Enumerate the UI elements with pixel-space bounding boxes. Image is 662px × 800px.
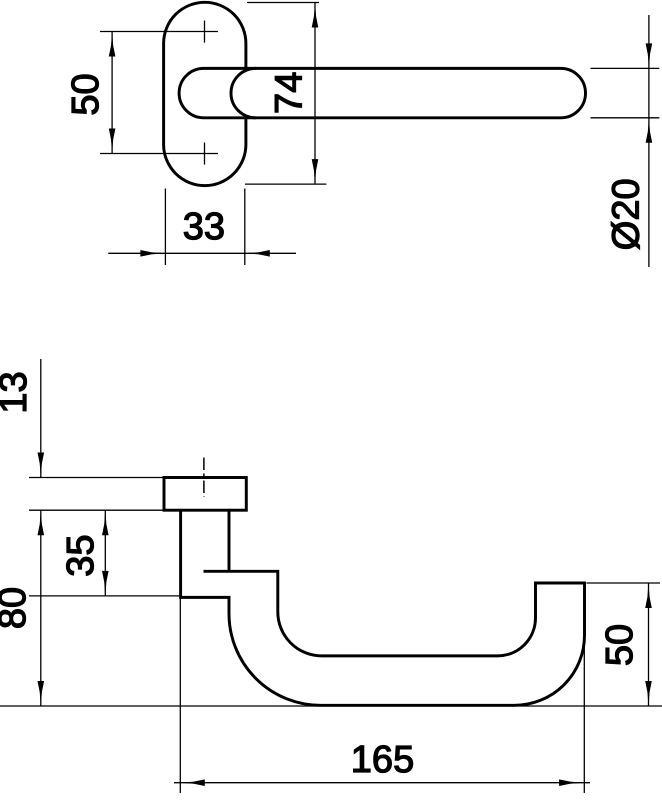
dimension 50 right line (648, 583, 650, 706)
arrow 13-80 up (38, 510, 45, 535)
screw hole center mark upper (100, 21, 218, 43)
svg-text:Ø20: Ø20 (606, 178, 648, 250)
extension line 33 left (164, 189, 166, 266)
datum base line (0, 705, 662, 707)
arrow 35 up (102, 510, 109, 535)
rose plate oval (top view) (164, 2, 246, 185)
extension line 35 (29, 595, 180, 597)
arrow 50 up (109, 32, 116, 57)
svg-text:35: 35 (60, 534, 102, 576)
dimension diameter line (648, 15, 650, 267)
extension line rose bottom (29, 509, 164, 511)
svg-text:50: 50 (65, 73, 107, 115)
svg-text:50: 50 (599, 624, 641, 666)
dimension 33 line (108, 252, 296, 254)
arrow 33 right (245, 250, 270, 257)
extension line 74 top (247, 2, 319, 4)
extension line 33 right (244, 189, 246, 266)
dimension 80 line (40, 510, 42, 706)
extension line rose top (29, 477, 164, 479)
extension line diameter top (591, 67, 660, 69)
svg-text:74: 74 (269, 72, 311, 114)
extension line 165 right (583, 636, 585, 793)
rose plate rectangle (front view) (164, 478, 246, 511)
lever bar stadium (top view) (179, 68, 585, 117)
screw hole center mark lower (100, 143, 218, 165)
arrow diameter down (646, 43, 653, 68)
lever bar left end cap arc (231, 68, 256, 117)
dimension 74 line (314, 3, 316, 185)
extension line 165 left (179, 510, 181, 793)
arrow 33 left (140, 250, 165, 257)
arrow 35 down (102, 571, 109, 596)
extension line 74 bottom (245, 183, 326, 185)
arrow 50 down (109, 129, 116, 154)
arrow 80 down (38, 681, 45, 706)
arrow 74 up (312, 3, 319, 28)
arrow 50 right up (645, 583, 652, 608)
svg-text:165: 165 (351, 739, 414, 781)
arrow 165 left (180, 779, 205, 786)
svg-text:80: 80 (0, 587, 34, 629)
dimension 165 line (174, 782, 590, 784)
lever handle profile (front view) (181, 510, 585, 705)
lever neck right edge (front view) (228, 510, 231, 571)
arrow 165 right (559, 779, 584, 786)
dimension 50 line (top view) (111, 32, 113, 154)
arrow diameter up (646, 118, 653, 143)
center line (front view) (203, 458, 205, 498)
svg-text:13: 13 (0, 371, 35, 413)
arrow 74 down (312, 159, 319, 184)
dimension 35 line (104, 510, 106, 596)
extension line 50 right top (587, 582, 661, 584)
svg-text:33: 33 (183, 206, 225, 248)
extension line diameter bottom (591, 117, 660, 119)
arrow 13 down (38, 453, 45, 478)
arrow 50 right down (645, 681, 652, 706)
dimension 13 line (40, 359, 42, 478)
